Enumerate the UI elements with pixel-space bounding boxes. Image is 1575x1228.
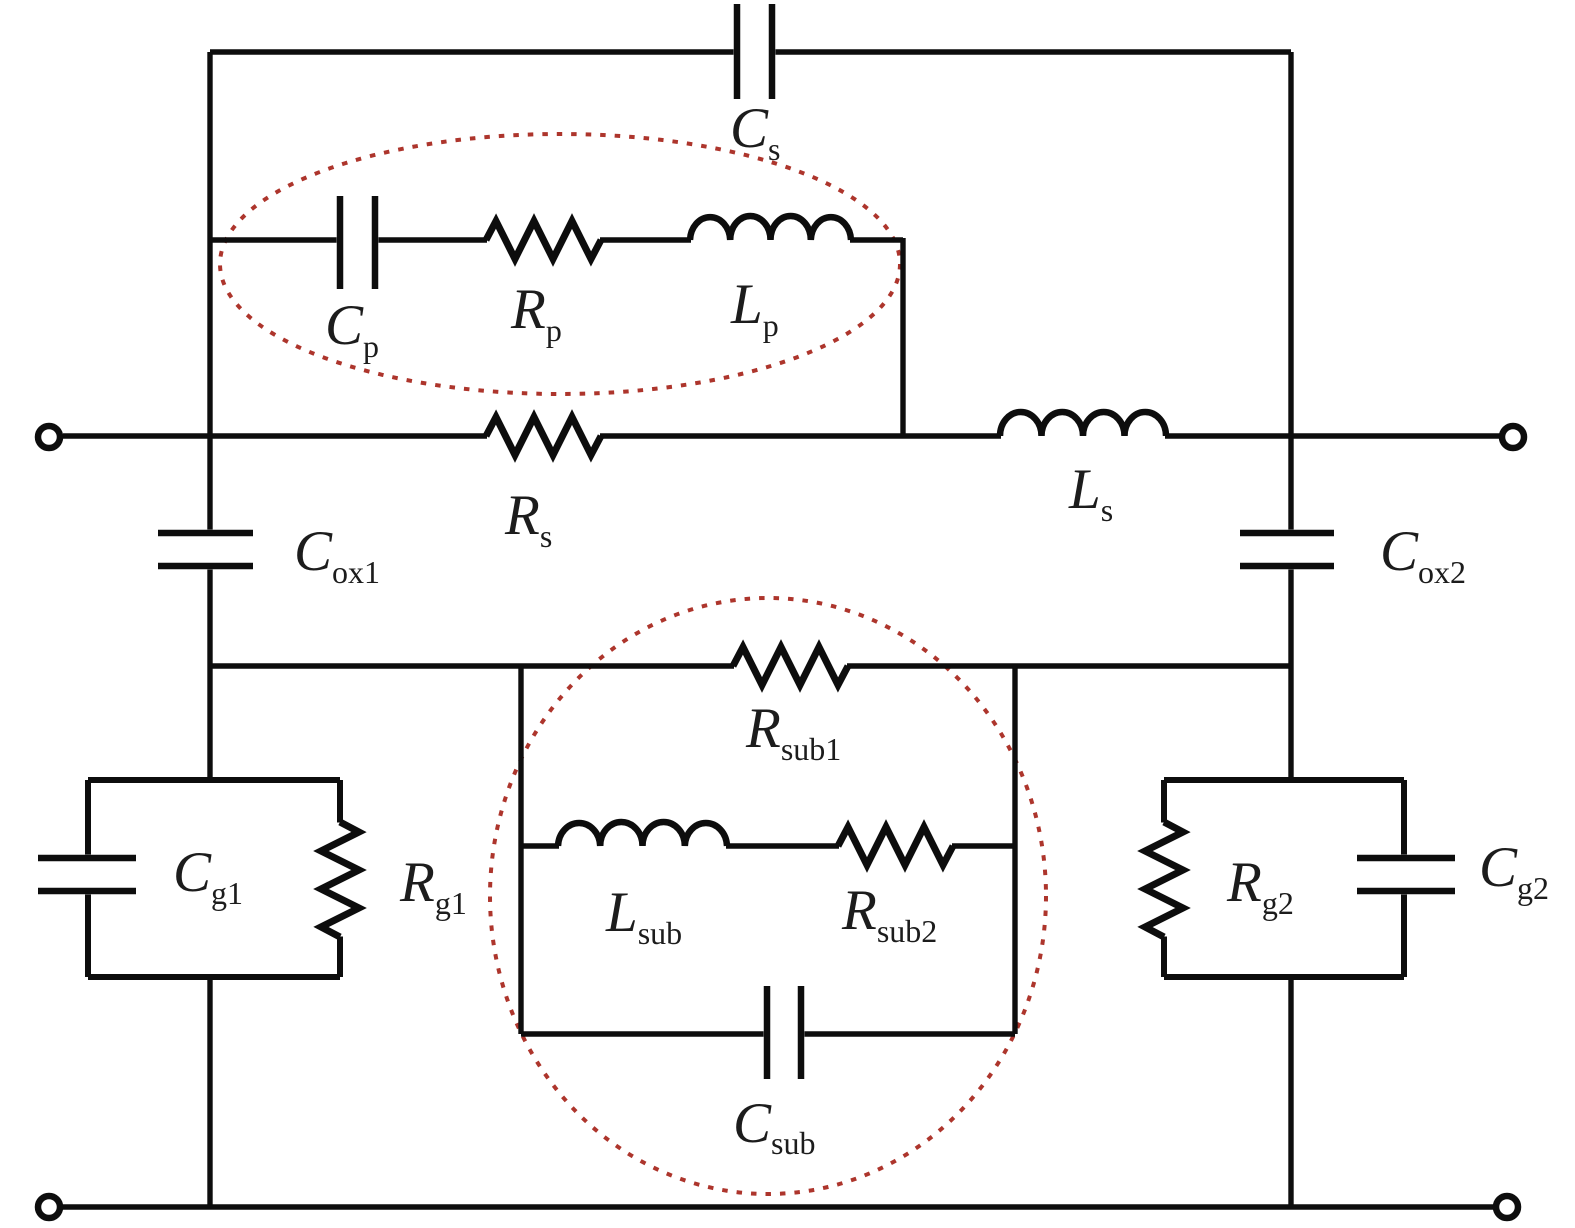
svg-text:Cs: Cs — [730, 97, 780, 167]
svg-text:Rsub1: Rsub1 — [745, 697, 841, 767]
svg-text:Rp: Rp — [510, 278, 562, 348]
svg-text:Cg1: Cg1 — [173, 841, 243, 911]
svg-text:Rg2: Rg2 — [1226, 851, 1294, 921]
svg-text:Cox2: Cox2 — [1380, 520, 1466, 590]
svg-text:Cox1: Cox1 — [294, 520, 380, 590]
svg-text:Lp: Lp — [730, 273, 779, 343]
svg-text:Csub: Csub — [733, 1092, 815, 1161]
svg-text:Rsub2: Rsub2 — [841, 879, 937, 949]
svg-text:Ls: Ls — [1068, 458, 1113, 528]
svg-text:Cg2: Cg2 — [1479, 836, 1549, 906]
svg-text:Rs: Rs — [504, 484, 552, 554]
svg-text:Cp: Cp — [325, 294, 379, 364]
svg-text:Rg1: Rg1 — [399, 851, 467, 921]
svg-text:Lsub: Lsub — [605, 881, 682, 951]
